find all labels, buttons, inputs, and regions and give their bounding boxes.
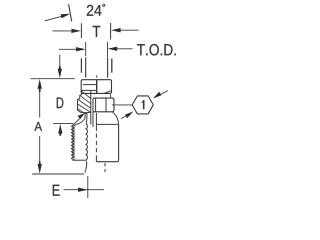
D dim upper arrow shaft [59, 55, 61, 71]
centerline dash above nut [96, 75, 98, 77]
body top edge [96, 123, 118, 125]
hex section left vertical [92, 98, 94, 127]
D dim lower arrow stub [59, 133, 61, 136]
V notch right leg [85, 119, 88, 124]
A dim top arrow stub [39, 89, 41, 92]
D dim lower arrowhead pointing up [58, 124, 62, 134]
balloon hexagon [132, 96, 153, 114]
hex top right jog [110, 94, 112, 98]
stem left serrated edge [72, 125, 74, 160]
A dim top arrowhead pointing up [38, 79, 42, 89]
stem tail curve [85, 160, 87, 172]
label D [57, 98, 64, 109]
T.O.D. right arrowhead [108, 47, 118, 51]
T dim left extension line [80, 23, 82, 38]
shoulder curve from hex to body [113, 112, 119, 124]
body left bottom corner [95, 158, 97, 162]
label T.O.D. [137, 44, 176, 55]
E dim arrow line [64, 189, 105, 191]
stem right wavy edge [86, 124, 87, 160]
serration leader arrowhead [78, 113, 86, 119]
E extension line [87, 176, 89, 198]
body right edge [96, 124, 118, 161]
neck vertical right [86, 113, 88, 119]
T dim right arrow line [119, 29, 139, 31]
A dim line lower segment [39, 136, 41, 166]
24 deg leader arrowhead [61, 14, 71, 18]
balloon upper right leader line [156, 91, 168, 97]
A dim bottom arrow stub [39, 161, 41, 164]
collar hatch line 2 [80, 95, 91, 103]
T.O.D. dim left extension line [85, 42, 87, 56]
nut facet vertical line [96, 80, 98, 94]
nut outline [81, 80, 111, 94]
collar hatch line 1 [82, 91, 91, 98]
E arrowhead pointing right [78, 188, 88, 192]
balloon leader horizontal line [112, 104, 132, 106]
neck vertical left [84, 113, 86, 119]
D dim upper arrow stub [59, 66, 61, 69]
neck top bar [85, 113, 87, 115]
A top reference line [31, 78, 75, 80]
A dim bottom arrowhead pointing down [38, 164, 42, 174]
nut back right edge [111, 58, 113, 72]
T.O.D. left arrow line [59, 48, 79, 50]
label 24 deg text [87, 5, 102, 16]
hex facet line 2 [105, 98, 107, 112]
collar hatch line 3 [78, 99, 91, 108]
A dim line upper segment [39, 86, 41, 118]
hex facet line 1 [95, 98, 97, 112]
hex section outline [93, 98, 114, 112]
collar hatch line 5 [78, 109, 84, 113]
stem bottom edge [72, 159, 85, 161]
nut bottom right chamfer [104, 91, 112, 94]
serrated collar right edge [90, 91, 92, 125]
label E [53, 185, 60, 196]
D dim upper arrowhead pointing down [58, 69, 62, 79]
nut interior line 2 [81, 89, 97, 91]
serrated collar left staircase edge [78, 91, 82, 113]
balloon upper right arrowhead [153, 92, 161, 99]
tube right edge [107, 57, 109, 77]
T.O.D. left arrowhead [76, 47, 86, 51]
nut back left edge [80, 58, 82, 72]
stem left inner line [73, 126, 75, 160]
T.O.D. dim right extension line [107, 42, 109, 57]
T dim left arrow line [53, 30, 74, 32]
24 deg tick line [69, 4, 72, 21]
T dim right arrowhead [111, 28, 121, 32]
balloon lower left arrowhead [125, 111, 133, 118]
T dim right extension line [110, 23, 112, 40]
label T [93, 26, 100, 37]
nut interior line 1 [83, 84, 97, 86]
T dim left arrowhead [71, 29, 81, 33]
collar hatch line 4 [78, 104, 91, 112]
label A [34, 122, 42, 131]
body left edge solid part [95, 113, 97, 131]
balloon lower left leader line [121, 114, 129, 118]
A bottom reference line [32, 173, 84, 175]
V notch left leg [74, 119, 85, 126]
D bottom reference line [53, 123, 73, 125]
below body hidden dashes [104, 163, 106, 172]
tube left edge [85, 57, 87, 77]
body left edge hidden dashes [95, 134, 97, 159]
degree symbol [103, 4, 105, 6]
24 deg leader line [45, 15, 66, 21]
label 1 [143, 100, 145, 109]
collar bottom edge [81, 112, 91, 114]
T.O.D. right arrow line [115, 48, 133, 50]
serration leader line [73, 117, 81, 125]
